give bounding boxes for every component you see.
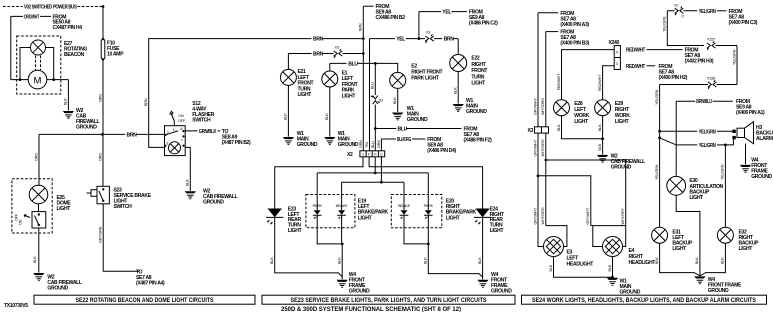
svg-text:C: C	[380, 153, 383, 157]
wire to E32	[724, 145, 726, 227]
wire X240 pin4 to E28	[562, 50, 615, 100]
svg-text:LIGHT: LIGHT	[57, 206, 72, 212]
svg-text:BRN: BRN	[313, 52, 324, 58]
svg-text:YEL/GRN: YEL/GRN	[699, 129, 717, 135]
ground W1 main (E2)	[392, 113, 403, 120]
wire dome to ground	[38, 228, 40, 273]
svg-text:BLK: BLK	[33, 256, 37, 263]
svg-text:PARK: PARK	[424, 204, 434, 208]
connector X2	[360, 151, 385, 157]
svg-text:GROUND: GROUND	[349, 289, 370, 295]
svg-text:GROUND: GROUND	[751, 174, 772, 180]
svg-text:ORG: ORG	[377, 140, 381, 148]
ground W2 cab firewall (work lights)	[597, 155, 608, 162]
wire E1 to ground	[329, 87, 331, 137]
connector X158	[717, 84, 738, 86]
svg-text:GROUND: GROUND	[297, 142, 318, 148]
svg-text:BLK: BLK	[549, 264, 553, 271]
svg-text:GROUND: GROUND	[203, 200, 224, 206]
bar SE24 title	[522, 295, 767, 304]
svg-text:ORG: ORG	[99, 94, 103, 102]
svg-text:BLK: BLK	[338, 257, 342, 264]
svg-text:YEL: YEL	[396, 37, 405, 43]
svg-text:RED/WHT: RED/WHT	[598, 74, 602, 91]
lamp E28 left work light	[554, 100, 570, 116]
wire BLU park branch	[330, 63, 398, 72]
svg-text:BLK: BLK	[598, 124, 602, 131]
svg-text:GROUND: GROUND	[491, 289, 512, 295]
wire H3 ground leg	[745, 144, 747, 165]
svg-text:SE23 SERVICE BRAKE LIGHTS, PAR: SE23 SERVICE BRAKE LIGHTS, PARK LIGHTS, …	[291, 298, 487, 304]
svg-text:GRY/WHT: GRY/WHT	[533, 139, 537, 156]
ground W2 cab firewall (beacon)	[63, 111, 74, 118]
wire right turn feed with connector X3	[370, 39, 459, 55]
svg-text:CX486 PIN B2: CX486 PIN B2	[376, 15, 406, 21]
svg-text:X2: X2	[347, 152, 353, 158]
svg-text:BLK: BLK	[424, 257, 428, 264]
node FROM SE9 A8 (BRN)	[363, 5, 373, 7]
wire branch to E4 right	[546, 160, 626, 226]
svg-text:GROUND: GROUND	[708, 288, 729, 294]
svg-text:LIGHT: LIGHT	[358, 215, 373, 221]
wire beacon lamp-motor link	[36, 56, 41, 71]
svg-text:OFF: OFF	[178, 119, 186, 123]
enclosure E20 right brake/park light	[391, 195, 442, 228]
svg-text:BLU: BLU	[348, 61, 358, 67]
svg-text:BLU/ORG: BLU/ORG	[397, 137, 411, 143]
wire YEL/GRN from X2C	[667, 10, 697, 12]
svg-text:ALARM: ALARM	[756, 136, 773, 142]
wire X2 pin2 to E24	[369, 157, 483, 209]
ground W1 main (headlights)	[607, 278, 618, 285]
headlamp E3 left headlight	[544, 237, 564, 257]
svg-text:BLK: BLK	[655, 257, 659, 264]
connector X157	[707, 41, 716, 50]
wire E2 to ground	[397, 88, 399, 112]
wire C park to X2 pin3 with connector X3	[374, 63, 376, 151]
svg-text:BLK: BLK	[270, 257, 274, 264]
svg-text:GRY/WHT: GRY/WHT	[533, 207, 537, 224]
wire E20 ground leg	[404, 216, 483, 277]
svg-text:(X400 PIN H2): (X400 PIN H2)	[659, 75, 688, 81]
svg-text:WHT/GRY: WHT/GRY	[621, 207, 625, 224]
svg-text:HEADLIGHT: HEADLIGHT	[567, 262, 595, 268]
svg-text:GRY/WHT: GRY/WHT	[533, 98, 537, 115]
svg-text:GROUND: GROUND	[466, 109, 487, 115]
switch dome (in E25)	[38, 204, 40, 212]
svg-text:10 AMP: 10 AMP	[107, 52, 124, 58]
wire E21 branch with connector X3	[288, 54, 363, 70]
svg-text:M: M	[34, 76, 42, 87]
wire S23 feed	[102, 134, 104, 186]
svg-text:(X488 PIN F2): (X488 PIN F2)	[464, 138, 493, 144]
wire E3 ground leg	[554, 257, 613, 278]
ground W2 cab firewall (S12)	[185, 191, 196, 198]
wire E3 top bracket	[546, 226, 567, 247]
ground W1 main (E1)	[324, 137, 335, 144]
wire E23 ground leg	[275, 218, 343, 277]
svg-text:RED/WHT: RED/WHT	[557, 73, 561, 90]
svg-text:BLK: BLK	[454, 87, 458, 94]
svg-text:GROUND: GROUND	[407, 117, 428, 123]
wire S23 to SE7	[103, 204, 139, 271]
wire BLU park source	[375, 128, 461, 130]
svg-text:8: 8	[181, 127, 183, 131]
svg-text:LIGHT: LIGHT	[490, 228, 505, 234]
lamp E21 left front turn light	[280, 69, 296, 85]
ground W4 front frame (backup)	[694, 276, 705, 283]
svg-text:1: 1	[173, 128, 175, 132]
wire E19 ground leg	[317, 216, 342, 279]
svg-text:YEL/GRN: YEL/GRN	[655, 89, 659, 105]
svg-text:BLK: BLK	[393, 97, 397, 104]
svg-text:GROUND: GROUND	[620, 290, 641, 296]
wire E22 to ground	[457, 72, 459, 104]
node V02 switched power bus	[3, 6, 23, 8]
svg-text:(X486 PIN D4): (X486 PIN D4)	[427, 148, 456, 154]
svg-text:J: J	[362, 153, 364, 157]
connector X2 pin C	[675, 6, 684, 15]
wire dome light feed	[38, 134, 40, 185]
ground W4 front frame (alarm)	[740, 165, 751, 172]
svg-text:BLK: BLK	[284, 113, 288, 120]
svg-text:GRY/WHT: GRY/WHT	[586, 207, 590, 224]
wire BRN flasher feed	[149, 39, 364, 148]
fuse F10 10 amp	[102, 7, 104, 40]
svg-text:BLK: BLK	[478, 257, 482, 264]
LED E23 left rear turn light	[266, 209, 283, 226]
svg-text:BRN: BRN	[359, 23, 363, 31]
svg-text:BLK: BLK	[695, 257, 699, 264]
wire X240 pin3 to E29	[603, 66, 615, 100]
svg-text:GRY/GRN: GRY/GRN	[99, 226, 103, 243]
wire BRN/BLU to E30	[675, 101, 677, 176]
wire BRN power drop	[362, 6, 364, 38]
wire WHT/ORG below X3	[545, 133, 547, 226]
svg-text:SE22 ROTATING BEACON AND DOME: SE22 ROTATING BEACON AND DOME LIGHT CIRC…	[76, 298, 214, 304]
wire X2 pin3 park bus	[374, 157, 376, 173]
svg-text:YEL/GRN: YEL/GRN	[699, 143, 717, 149]
wire WHT/ORG headlight feed	[545, 32, 547, 127]
bar SE22 title	[34, 295, 255, 304]
svg-text:(X487 PIN B2): (X487 PIN B2)	[222, 140, 251, 146]
svg-text:WHT/ORG: WHT/ORG	[541, 98, 545, 115]
ground W4 front frame (rear left)	[337, 280, 348, 287]
wire E4 ground leg	[612, 257, 614, 278]
junction bus/F10	[102, 5, 105, 8]
wire beacon right rail	[46, 48, 69, 111]
switch S23 service brake light switch	[97, 186, 109, 204]
svg-text:X240: X240	[609, 40, 620, 46]
svg-text:BRAKE: BRAKE	[336, 204, 349, 208]
svg-text:(X400 PIN A3): (X400 PIN A3)	[560, 22, 589, 28]
svg-text:YEL/GRN: YEL/GRN	[699, 9, 717, 15]
svg-text:4: 4	[616, 50, 618, 54]
wire YEL/GRN drop to X157	[667, 11, 704, 46]
svg-text:BEACON: BEACON	[64, 52, 85, 58]
lamp E29 right work light	[595, 100, 611, 116]
wire S12 ground leg	[185, 147, 190, 190]
svg-text:RIGHT: RIGHT	[471, 62, 486, 68]
svg-text:BRN: BRN	[127, 132, 138, 138]
svg-text:BRN/BLU: BRN/BLU	[696, 99, 712, 105]
connector X3 (headlights)	[535, 127, 549, 133]
wire A left turn to X2 pin1	[362, 39, 364, 151]
svg-text:RIGHT FRONT: RIGHT FRONT	[411, 70, 443, 76]
svg-text:LIGHT: LIGHT	[739, 246, 754, 252]
svg-text:X157: X157	[707, 38, 715, 42]
svg-text:BLU: BLU	[398, 127, 408, 133]
svg-text:7: 7	[181, 138, 183, 142]
svg-text:LIGHT: LIGHT	[342, 93, 357, 99]
wire E4 top bracket	[591, 226, 626, 247]
svg-text:WHT/ORG: WHT/ORG	[541, 207, 545, 224]
svg-text:TX10730V5: TX10730V5	[4, 303, 28, 309]
svg-text:GROUND: GROUND	[76, 125, 97, 131]
svg-text:YEL: YEL	[442, 10, 451, 16]
wire E30 ground leg	[676, 195, 700, 275]
node FROM SE9 A8 (YEL)	[452, 11, 467, 13]
svg-text:RED/WHT: RED/WHT	[626, 64, 646, 70]
svg-text:LIGHT: LIGHT	[288, 228, 303, 234]
bar SE23 title	[262, 295, 515, 304]
svg-text:PARK LIGHT: PARK LIGHT	[411, 76, 439, 82]
lamp E1 left front park light	[322, 71, 338, 87]
svg-text:X158: X158	[707, 77, 715, 81]
wire S12 pin7 to SE8	[185, 130, 220, 132]
lamp E31 left backup light	[652, 227, 668, 243]
svg-text:YEL: YEL	[365, 141, 369, 148]
svg-text:PARK: PARK	[313, 204, 323, 208]
svg-text:SE24 WORK LIGHTS, HEADLIGHTS,: SE24 WORK LIGHTS, HEADLIGHTS, BACKUP LIG…	[532, 298, 756, 304]
svg-text:GROUND: GROUND	[611, 165, 632, 171]
rotating beacon E27 enclosure	[17, 36, 61, 94]
svg-text:YEL/GRN: YEL/GRN	[721, 164, 725, 180]
wire E32 ground leg	[700, 244, 726, 276]
svg-text:HEADLIGHT: HEADLIGHT	[629, 260, 657, 266]
svg-text:BLK: BLK	[598, 143, 602, 150]
wire E21 to ground	[287, 85, 289, 136]
svg-text:(X487 PIN A4): (X487 PIN A4)	[136, 281, 165, 287]
wire beacon left rail	[11, 48, 31, 80]
dome light E25 enclosure	[12, 179, 52, 233]
svg-text:X3: X3	[527, 128, 533, 134]
svg-text:CX487 PIN H4: CX487 PIN H4	[53, 25, 83, 31]
ground W1 main (E21)	[283, 137, 294, 144]
svg-text:LIGHT: LIGHT	[471, 81, 486, 87]
svg-text:BLK: BLK	[557, 124, 561, 131]
wire dome bus	[39, 133, 125, 135]
svg-text:E22: E22	[471, 56, 480, 62]
svg-text:WHT/ORG: WHT/ORG	[541, 139, 545, 156]
svg-text:X3: X3	[426, 31, 430, 35]
svg-text:ORG/WHT: ORG/WHT	[24, 14, 40, 20]
svg-text:LIGHT: LIGHT	[672, 246, 687, 252]
svg-text:GROUND: GROUND	[47, 286, 68, 292]
svg-text:2: 2	[167, 131, 169, 135]
svg-text:BLK: BLK	[721, 257, 725, 264]
svg-text:(X402 PIN H3): (X402 PIN H3)	[685, 59, 714, 65]
wire E31 ground leg	[660, 244, 700, 276]
svg-text:SWITCH: SWITCH	[192, 118, 211, 124]
svg-text:GRN: GRN	[359, 140, 363, 148]
wire GRY/WHT below X3	[538, 133, 543, 246]
svg-text:RED/WHT: RED/WHT	[626, 48, 646, 54]
svg-text:BLU: BLU	[371, 141, 375, 148]
svg-text:SWITCH: SWITCH	[114, 204, 133, 210]
svg-text:3: 3	[616, 62, 618, 66]
ground W1 main (E22)	[453, 104, 464, 111]
svg-text:YEL/GRN: YEL/GRN	[732, 49, 736, 65]
svg-text:BRN: BRN	[313, 37, 324, 43]
svg-text:ORG: ORG	[34, 153, 38, 161]
svg-text:250D & 300D SYSTEM FUNCTIONAL: 250D & 300D SYSTEM FUNCTIONAL SCHEMATIC …	[281, 307, 461, 312]
headlamp E4 right headlight	[603, 237, 623, 257]
svg-text:LIGHT: LIGHT	[574, 119, 589, 125]
node FROM SE7 A8 (X400 PIN B3)	[546, 31, 558, 33]
wire branch to E4 left	[538, 176, 591, 226]
svg-text:3: 3	[166, 142, 168, 146]
node FROM SE7 A8 (X400 PIN A3)	[538, 12, 558, 14]
lamp E30 articulation backup light	[667, 176, 686, 195]
svg-text:ORG: ORG	[98, 153, 102, 161]
svg-text:V02 SWITCHED POWER BUS: V02 SWITCHED POWER BUS	[24, 4, 77, 10]
svg-text:ON: ON	[178, 114, 184, 118]
svg-text:FRONT: FRONT	[471, 68, 488, 74]
svg-text:YEL/GRN: YEL/GRN	[663, 16, 667, 32]
svg-text:LIGHT: LIGHT	[689, 195, 704, 201]
svg-text:BLU: BLU	[371, 82, 375, 89]
svg-text:LIGHT: LIGHT	[615, 119, 630, 125]
lamp E27	[30, 40, 45, 55]
svg-text:LIGHT: LIGHT	[298, 92, 313, 98]
wire E24 ground leg	[482, 218, 484, 280]
svg-text:X3: X3	[379, 99, 383, 103]
switch S12 4-way flasher	[165, 126, 186, 156]
svg-text:BLK: BLK	[186, 179, 190, 186]
wire alarm feed 1	[660, 130, 734, 132]
wire alarm feed 2 (diagonal)	[660, 138, 734, 145]
lamp E25	[29, 185, 48, 204]
svg-text:BRN: BRN	[144, 98, 148, 106]
wire D brake to X2 pin4	[381, 139, 425, 151]
svg-text:(X486 PIN C2): (X486 PIN C2)	[469, 21, 498, 27]
svg-text:BLK: BLK	[64, 98, 68, 105]
lamp E22 right front turn light	[450, 55, 467, 72]
svg-text:BRN: BRN	[444, 37, 455, 43]
wire ORG/WHT feed	[11, 16, 51, 79]
svg-text:(X406 PIN A1): (X406 PIN A1)	[736, 110, 765, 116]
svg-text:GROUND: GROUND	[338, 142, 359, 148]
wire YEL/GRN backup bus	[659, 85, 661, 227]
wire GRY/WHT headlight feed	[537, 13, 539, 127]
svg-text:ON: ON	[19, 219, 23, 225]
svg-text:BRAKE: BRAKE	[398, 204, 411, 208]
svg-text:BLK: BLK	[608, 264, 612, 271]
svg-text:(X400 PIN C3): (X400 PIN C3)	[729, 20, 758, 26]
enclosure E19 left brake/park light	[306, 195, 355, 228]
wire B right turn to X2 pin2	[369, 39, 371, 151]
svg-text:(X400 PIN B3): (X400 PIN B3)	[560, 41, 589, 47]
wire YEL drop	[418, 12, 420, 39]
LED E24 right rear turn light	[474, 209, 491, 226]
svg-text:YEL/GRN: YEL/GRN	[655, 164, 659, 180]
wire E28/E29 ground legs	[562, 116, 603, 155]
wire X2 pin4 brake bus	[380, 157, 382, 182]
alarm H3 backup alarm	[732, 130, 735, 133]
svg-text:X2: X2	[674, 3, 678, 7]
svg-text:X3: X3	[335, 46, 339, 50]
wire X2 pin1 to E23	[275, 157, 363, 209]
node FROM SE9 A8 (X406 PIN A1) BRN/BLU	[676, 100, 695, 102]
svg-text:E2: E2	[411, 64, 417, 70]
lamp E32 right backup light	[717, 227, 733, 243]
svg-text:TURN: TURN	[471, 74, 484, 80]
connector X240	[614, 46, 620, 70]
svg-text:LIGHT: LIGHT	[446, 215, 461, 221]
ground W4 front frame (rear right)	[477, 280, 488, 287]
ground W2 cab firewall (dome)	[33, 273, 44, 280]
motor M	[28, 70, 47, 89]
svg-text:BLK: BLK	[325, 113, 329, 120]
svg-text:GRN/BLK: GRN/BLK	[199, 129, 217, 135]
lamp E2 right front park light	[390, 72, 406, 88]
